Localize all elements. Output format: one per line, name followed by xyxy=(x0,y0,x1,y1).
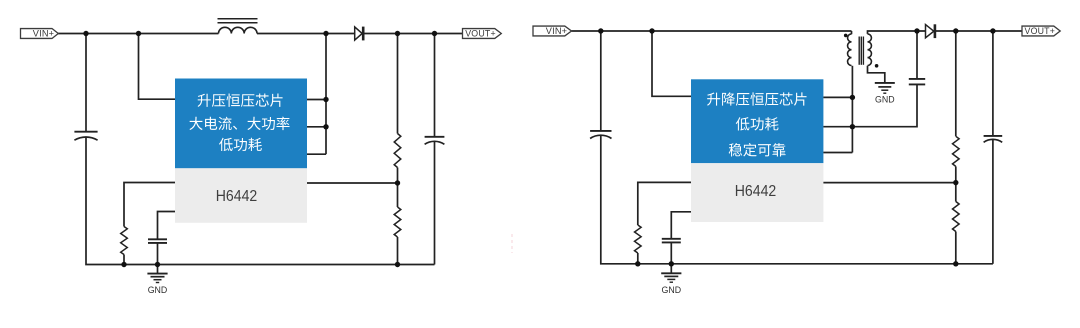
svg-text:GND: GND xyxy=(875,95,895,105)
wire: C2 to rail xyxy=(157,243,159,265)
chip U2 text line3 稳定可靠 xyxy=(729,143,786,156)
chip U1 gray body xyxy=(175,168,307,223)
wire: left top rail VIN to inductor xyxy=(58,33,219,35)
wire: secondary top to diode xyxy=(868,31,926,34)
wire: U1 pin2 right xyxy=(307,126,326,128)
wire: R1 to rail xyxy=(123,255,125,265)
wire: U1 pin1 right xyxy=(307,99,326,101)
diode D2 xyxy=(926,25,934,38)
chip U1 text line2 大电流、大功率 xyxy=(189,117,289,130)
wire: U1 left pin to R1 xyxy=(124,183,175,227)
svg-text:VIN+: VIN+ xyxy=(546,26,567,36)
chip U1 text line3 低功耗 xyxy=(219,138,262,151)
chip U1 text line1 升压恒压芯片 xyxy=(198,94,283,107)
wire: divider mid (right) xyxy=(955,166,957,201)
chip U2 text line2 低功耗 xyxy=(736,117,779,130)
capacitor C3 (output, polarized) xyxy=(425,136,445,138)
wire: secondary bottom to ground xyxy=(868,66,885,82)
ground GND (left circuit) xyxy=(147,273,167,275)
wire: R4 to rail xyxy=(637,253,639,264)
wire: U2 pin3 right xyxy=(823,152,852,154)
wire: divider branch top (right) xyxy=(955,31,957,136)
svg-text:VOUT+: VOUT+ xyxy=(465,29,496,39)
transformer T1 core bars xyxy=(858,37,860,65)
svg-text:VIN+: VIN+ xyxy=(33,29,54,39)
wire: ground stub (right) xyxy=(670,264,672,273)
wire: output cap branch top (right) xyxy=(992,31,994,136)
wire: U1 FB pin right to divider xyxy=(307,182,398,184)
svg-text:H6442: H6442 xyxy=(735,183,777,200)
wire: ground stub xyxy=(157,265,159,274)
wire: U2 FB pin right to divider xyxy=(823,182,955,184)
wire: transformer primary stub xyxy=(851,31,853,34)
wire: output cap bottom (right) xyxy=(992,139,994,263)
svg-text:GND: GND xyxy=(148,285,168,295)
svg-text:VOUT+: VOUT+ xyxy=(1025,26,1056,36)
transformer phase dot secondary xyxy=(875,64,879,68)
wire: C5 to rail xyxy=(670,243,672,264)
svg-text:GND: GND xyxy=(662,285,682,295)
ground GND (transformer) xyxy=(875,82,895,84)
wire: U1 left pin to C2 xyxy=(158,212,176,240)
capacitor C6 (snubber) xyxy=(909,78,925,80)
op-chip U1 blue body xyxy=(175,79,307,169)
ground GND (right circuit) xyxy=(661,272,681,274)
chip U2 gray body xyxy=(691,163,823,222)
resistor R2 xyxy=(394,134,401,168)
inductor L1 xyxy=(219,27,258,33)
wire: diode to VOUT flag xyxy=(363,33,462,35)
port flag VIN+ (right) xyxy=(533,26,572,36)
junction dots right circuit xyxy=(598,28,603,33)
wire: U2 left pin to C5 xyxy=(671,212,691,239)
wire: pin2 junction to snubber cap xyxy=(852,85,917,127)
wire: U2 pin2 right xyxy=(823,126,852,128)
wire: divider branch top xyxy=(397,34,399,134)
chip U2 text line1 升降压恒压芯片 xyxy=(707,92,807,105)
wire: input cap branch top (right) xyxy=(600,31,602,131)
junction dots left circuit xyxy=(83,31,88,36)
wire: U1 pin3 right xyxy=(307,153,326,155)
wire: input cap branch top xyxy=(85,34,87,132)
wire: U2 pin1 right xyxy=(823,96,852,98)
resistor R6 xyxy=(953,202,960,232)
wire: right top rail VIN to transformer xyxy=(572,30,852,32)
wire: divider mid xyxy=(397,168,399,208)
wire: snubber cap to top rail xyxy=(916,31,918,79)
port flag VOUT+ xyxy=(463,29,502,39)
capacitor C7 (output, polarized) xyxy=(984,135,1003,137)
resistor R4 xyxy=(635,225,642,253)
wire: input cap bottom + bottom rail (right) xyxy=(601,135,993,264)
resistor R1 xyxy=(121,227,128,255)
watermark artifact xyxy=(511,234,513,253)
wire: SW bus right of U2 xyxy=(851,66,853,153)
resistor R3 xyxy=(394,207,401,237)
wire: output cap branch top xyxy=(434,34,436,137)
capacitor C4 (input, polarized) xyxy=(590,130,611,132)
capacitor C1 (input, polarized) xyxy=(74,131,97,133)
svg-text:H6442: H6442 xyxy=(216,188,258,205)
transformer T1 secondary winding xyxy=(868,34,872,66)
inductor L1 core bars xyxy=(218,18,258,20)
wire: input cap branch bottom + bottom rail xyxy=(86,137,435,265)
port flag VOUT+ (right) xyxy=(1022,26,1060,36)
wire: U2 left pin to R4 xyxy=(638,182,691,225)
diode D1 xyxy=(355,27,363,40)
transformer phase dot primary xyxy=(844,34,848,38)
wire: SW bus right of U1 xyxy=(325,34,327,155)
transformer T1 primary winding xyxy=(848,34,852,66)
capacitor C5 xyxy=(662,238,681,240)
port flag VIN+ xyxy=(21,29,59,39)
resistor R5 xyxy=(953,136,960,166)
wire: inductor to diode xyxy=(257,33,355,35)
wire: branch into chip (right) xyxy=(652,31,691,96)
chip U2 blue body xyxy=(691,79,823,163)
wire: R6 to rail xyxy=(955,232,957,264)
wire: diode to VOUT flag xyxy=(935,30,1022,32)
wire: branch into chip pin (VIN to U1) xyxy=(139,34,176,100)
wire: output cap branch bottom xyxy=(434,141,436,264)
capacitor C2 xyxy=(148,238,167,240)
wire: R3 to rail xyxy=(397,237,399,265)
